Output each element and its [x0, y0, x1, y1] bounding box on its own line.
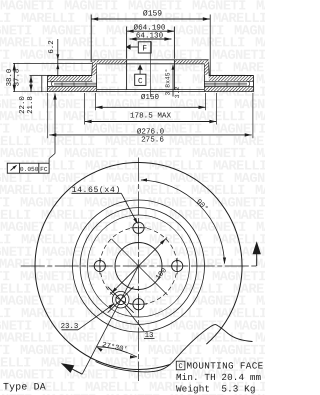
centre bore Ø64 — [115, 243, 162, 290]
dimension 6.2 (flange plate thickness) — [57, 39, 59, 75]
bolt circle Ø100 (dashed) — [100, 228, 177, 305]
circle hat inner edge — [88, 215, 190, 317]
svg-text:MOUNTING FACE: MOUNTING FACE — [187, 361, 264, 372]
svg-text:37.8: 37.8 — [14, 69, 22, 87]
circle view horizontal centreline — [21, 265, 257, 267]
section background edges seen through hat opening — [97, 89, 205, 91]
runout feature control frame 0.050 FC with leader to braking face — [7, 163, 49, 173]
section hat plate and walls (hatched) — [92, 59, 208, 61]
set screw hole (cross marked) — [116, 295, 126, 305]
svg-text:Min. TH 20.4 mm: Min. TH 20.4 mm — [176, 372, 262, 383]
svg-text:178.5 MAX: 178.5 MAX — [130, 111, 171, 120]
svg-text:3.8x45°: 3.8x45° — [164, 69, 171, 96]
note 3.8x45° / 3.2 bore chamfer — [172, 66, 174, 97]
dimension Ø64.190 (bore max) — [127, 30, 175, 32]
svg-text:Ø64.190: Ø64.190 — [134, 24, 166, 33]
svg-text:Ø276.0: Ø276.0 — [137, 127, 165, 136]
svg-text:F: F — [142, 45, 147, 54]
dimension 22.0/21.8 (disc thickness) — [30, 76, 32, 92]
diagonal centre mark through bore — [112, 239, 168, 295]
bolt hole 3 Ø14.65 — [133, 299, 144, 310]
section centre bore walls — [126, 60, 128, 90]
datum F box with triangle on bore extension line — [138, 42, 151, 53]
svg-text:3.2: 3.2 — [174, 87, 181, 99]
angular dimension 27°30' — [97, 347, 138, 357]
svg-text:21.8: 21.8 — [27, 96, 35, 114]
section vertical axis — [150, 41, 152, 97]
svg-text:Ø150: Ø150 — [141, 93, 160, 102]
section right rim (vented braking band, hatched) — [209, 75, 254, 77]
svg-text:C: C — [178, 363, 182, 371]
dimension Ø150 (braking band inner diameter) — [96, 106, 206, 108]
bolt hole 1 Ø14.65 — [133, 222, 144, 233]
svg-text:0.050: 0.050 — [20, 166, 39, 173]
note C MOUNTING FACE — [176, 361, 185, 370]
break-away wavy boundary — [96, 325, 253, 372]
dimension 178.5 MAX — [85, 121, 217, 123]
svg-text:FC: FC — [40, 166, 48, 173]
angular dimension 90° between holes — [141, 180, 225, 264]
svg-text:275.6: 275.6 — [141, 136, 164, 145]
dimension 38.0/37.8 (overall height) — [13, 63, 15, 91]
circle Ø178.5 pad sweep — [73, 200, 205, 332]
cutting plane ray at 27°30' with section arrow — [82, 266, 138, 374]
dimension 64.130 (bore min) — [130, 38, 172, 40]
dimension 100 bolt circle diameter — [110, 238, 167, 295]
outer circle Ø276 (bottom-right broken away) — [35, 162, 242, 369]
datum C box with triangle on mounting face — [135, 74, 146, 85]
section arrow right (view direction up) — [256, 254, 258, 267]
dimension Ø276.0 / 275.6 (outer diameter) — [49, 134, 251, 136]
section left rim (vented braking band, hatched) — [48, 75, 93, 77]
circle view vertical centreline — [138, 158, 140, 382]
bolt hole 4 Ø14.65 — [94, 260, 105, 271]
bolt hole 2 Ø14.65 — [172, 260, 183, 271]
circle Ø159 hat edge — [80, 208, 197, 325]
svg-text:C: C — [138, 77, 143, 86]
svg-text:64.130: 64.130 — [136, 32, 164, 41]
svg-text:6.2: 6.2 — [48, 40, 56, 53]
svg-text:Ø159: Ø159 — [143, 10, 162, 19]
svg-text:Weight 5.3 Kg: Weight 5.3 Kg — [176, 384, 256, 395]
dimension Ø159 (hat outer diameter) — [91, 18, 210, 20]
svg-text:Type DA: Type DA — [3, 381, 46, 392]
